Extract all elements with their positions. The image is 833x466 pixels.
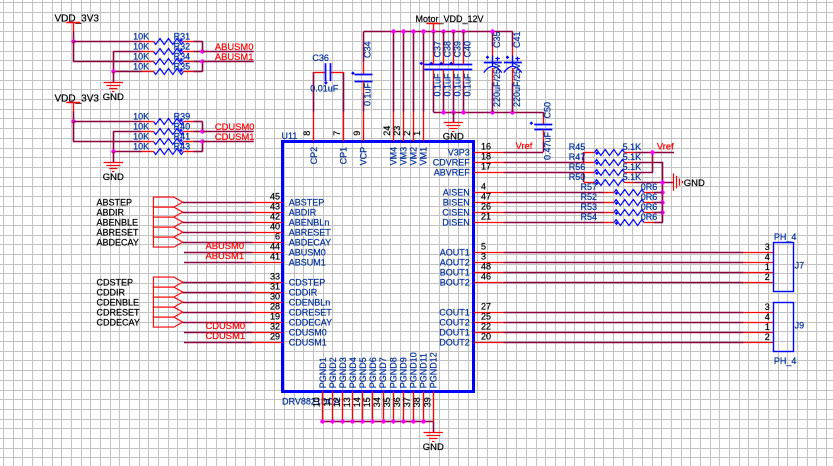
svg-text:COUT2: COUT2 [439,318,470,328]
svg-text:35: 35 [382,397,392,407]
svg-text:GND: GND [103,172,124,183]
svg-text:33: 33 [270,272,280,282]
svg-text:CDRESET: CDRESET [289,308,333,318]
svg-text:ABENBLn: ABENBLn [289,218,330,228]
svg-text:7: 7 [332,131,342,136]
svg-text:R40: R40 [174,121,191,131]
svg-text:CDVREF: CDVREF [433,158,471,168]
svg-text:3: 3 [765,302,770,312]
svg-text:CP1: CP1 [339,147,349,165]
svg-text:R47: R47 [569,152,586,162]
svg-text:CDSTEP: CDSTEP [289,278,326,288]
svg-text:1: 1 [765,262,770,272]
svg-text:R41: R41 [174,131,191,141]
svg-text:ABRESET: ABRESET [289,228,332,238]
svg-text:GND: GND [103,92,124,103]
svg-text:10K: 10K [133,51,149,61]
svg-text:ABUSM1: ABUSM1 [206,250,245,261]
svg-text:24: 24 [382,126,392,136]
svg-text:2: 2 [402,131,412,136]
svg-text:10K: 10K [133,111,149,121]
svg-text:PGND4: PGND4 [348,357,358,388]
svg-text:CDDECAY: CDDECAY [97,318,140,328]
svg-text:48: 48 [481,262,491,272]
svg-text:ABSTEP: ABSTEP [289,198,325,208]
svg-text:PGND2: PGND2 [328,357,338,388]
svg-text:CDUSM1: CDUSM1 [289,338,327,348]
svg-text:28: 28 [270,302,280,312]
svg-text:CDENBLE: CDENBLE [97,298,140,308]
svg-text:PGND12: PGND12 [428,352,438,388]
svg-text:CDENBLn: CDENBLn [289,298,331,308]
svg-text:0.1uF: 0.1uF [452,73,462,97]
svg-text:ABSUM1: ABSUM1 [289,258,326,268]
svg-text:29: 29 [270,332,280,342]
svg-text:1: 1 [765,322,770,332]
svg-text:GND: GND [443,132,464,143]
svg-text:Vref: Vref [516,140,533,151]
svg-text:C39: C39 [452,41,462,58]
svg-text:44: 44 [270,242,280,252]
svg-text:40: 40 [270,222,280,232]
svg-text:PGND7: PGND7 [378,357,388,388]
svg-text:0.1uF: 0.1uF [462,73,472,97]
svg-text:CISEN: CISEN [442,208,470,218]
svg-text:CDUSM0: CDUSM0 [289,328,327,338]
svg-text:C50: C50 [542,102,552,119]
svg-text:C37: C37 [432,41,442,58]
svg-text:0R6: 0R6 [641,192,658,202]
svg-text:22: 22 [481,322,491,332]
svg-text:19: 19 [270,312,280,322]
svg-text:16: 16 [481,142,491,152]
svg-text:R39: R39 [174,111,191,121]
svg-text:BISEN: BISEN [443,198,470,208]
svg-text:5.1K: 5.1K [623,142,642,152]
svg-text:CDDIR: CDDIR [97,288,126,298]
svg-text:25: 25 [481,312,491,322]
svg-text:14: 14 [352,397,362,407]
svg-text:220uF/25V: 220uF/25V [512,63,522,107]
svg-text:8: 8 [302,131,312,136]
svg-text:43: 43 [270,202,280,212]
svg-text:0R6: 0R6 [641,182,658,192]
svg-text:3: 3 [765,242,770,252]
svg-text:VM4: VM4 [389,147,399,166]
svg-text:J7: J7 [795,260,805,270]
svg-text:4: 4 [765,312,770,322]
svg-text:R56: R56 [569,162,586,172]
svg-text:PGND1: PGND1 [318,357,328,388]
svg-text:4: 4 [765,252,770,262]
svg-text:10K: 10K [133,41,149,51]
svg-text:C40: C40 [462,41,472,58]
svg-text:0.1uF: 0.1uF [363,82,373,106]
svg-text:BOUT1: BOUT1 [440,268,470,278]
svg-text:41: 41 [270,252,280,262]
svg-text:10K: 10K [133,31,149,41]
svg-text:CDUSM1: CDUSM1 [215,131,255,142]
svg-text:5: 5 [481,242,486,252]
svg-text:27: 27 [481,302,491,312]
svg-text:C38: C38 [442,41,452,58]
svg-text:PH_4: PH_4 [774,356,797,366]
svg-text:10K: 10K [133,141,149,151]
svg-text:PGND5: PGND5 [358,357,368,388]
svg-text:26: 26 [481,202,491,212]
svg-text:2: 2 [765,332,770,342]
svg-text:21: 21 [481,212,491,222]
svg-text:Motor_VDD_12V: Motor_VDD_12V [416,14,484,24]
svg-text:GND: GND [423,442,444,453]
svg-text:C36: C36 [312,53,329,63]
svg-text:CDDIR: CDDIR [289,288,318,298]
svg-text:PGND9: PGND9 [398,357,408,388]
svg-text:DOUT1: DOUT1 [439,328,470,338]
svg-text:C34: C34 [363,41,373,58]
svg-text:R45: R45 [569,142,586,152]
svg-text:R52: R52 [580,192,597,202]
svg-text:CDDECAY: CDDECAY [289,318,332,328]
svg-text:6: 6 [275,232,280,242]
svg-text:R57: R57 [580,182,597,192]
svg-text:CDSTEP: CDSTEP [97,278,134,288]
svg-text:5.1K: 5.1K [623,172,642,182]
svg-text:0.1uF: 0.1uF [432,73,442,97]
svg-text:AOUT1: AOUT1 [440,248,470,258]
svg-text:45: 45 [270,192,280,202]
svg-text:BOUT2: BOUT2 [440,278,470,288]
svg-text:10K: 10K [133,121,149,131]
svg-text:AISEN: AISEN [443,188,470,198]
svg-text:36: 36 [392,397,402,407]
svg-text:46: 46 [481,272,491,282]
svg-text:ABVREF: ABVREF [434,168,471,178]
svg-text:ABDIR: ABDIR [289,208,317,218]
svg-text:CP2: CP2 [309,147,319,165]
svg-text:AOUT2: AOUT2 [440,258,470,268]
svg-text:23: 23 [392,126,402,136]
svg-text:31: 31 [270,282,280,292]
svg-text:9: 9 [352,131,362,136]
svg-text:3: 3 [481,252,486,262]
svg-text:ABENBLE: ABENBLE [97,218,139,228]
svg-text:Vref: Vref [657,140,674,151]
svg-text:ABRESET: ABRESET [97,228,140,238]
svg-text:15: 15 [362,397,372,407]
svg-text:VM2: VM2 [409,147,419,166]
svg-text:4: 4 [481,182,486,192]
svg-text:GND: GND [684,178,705,189]
svg-text:ABUSM0: ABUSM0 [289,248,326,258]
svg-text:ABUSM1: ABUSM1 [215,51,254,62]
svg-text:0.1uF: 0.1uF [442,73,452,97]
svg-text:5.1K: 5.1K [623,162,642,172]
svg-text:47: 47 [481,192,491,202]
svg-text:R35: R35 [174,61,191,71]
svg-text:R43: R43 [174,141,191,151]
svg-text:0.47uF: 0.47uF [542,131,552,160]
svg-text:ABDECAY: ABDECAY [97,238,139,248]
svg-text:R53: R53 [580,202,597,212]
svg-text:R32: R32 [174,41,191,51]
svg-text:38: 38 [412,397,422,407]
svg-text:0R6: 0R6 [641,212,658,222]
svg-text:30: 30 [270,292,280,302]
svg-text:ABSTEP: ABSTEP [97,198,133,208]
svg-text:DOUT2: DOUT2 [439,338,470,348]
svg-text:R31: R31 [174,31,191,41]
svg-text:10: 10 [312,397,322,407]
svg-text:37: 37 [402,397,412,407]
svg-text:11: 11 [322,397,332,406]
svg-text:VM3: VM3 [399,147,409,166]
svg-text:R34: R34 [174,51,191,61]
svg-text:PGND6: PGND6 [368,357,378,388]
svg-text:42: 42 [270,212,280,222]
svg-text:DISEN: DISEN [442,218,470,228]
svg-text:10K: 10K [133,61,149,71]
svg-text:V3P3: V3P3 [448,148,470,158]
svg-text:VM1: VM1 [419,147,429,166]
svg-text:VCP: VCP [359,147,369,166]
svg-text:PGND3: PGND3 [338,357,348,388]
svg-text:2: 2 [765,272,770,282]
svg-text:CDRESET: CDRESET [97,308,141,318]
svg-text:PGND11: PGND11 [418,353,428,388]
svg-text:12: 12 [332,397,342,407]
svg-text:PH_4: PH_4 [774,232,797,242]
svg-text:R54: R54 [580,212,597,222]
svg-text:10K: 10K [133,131,149,141]
svg-text:PGND10: PGND10 [408,352,418,388]
svg-text:17: 17 [481,162,491,172]
svg-text:ABDIR: ABDIR [97,208,125,218]
svg-text:0.01uF: 0.01uF [310,84,339,94]
svg-text:220uF/25V: 220uF/25V [492,63,502,107]
svg-text:13: 13 [342,397,352,407]
svg-text:1: 1 [412,131,422,136]
svg-text:C35: C35 [492,31,502,48]
svg-text:ABDECAY: ABDECAY [289,238,331,248]
svg-text:18: 18 [481,152,491,162]
svg-text:20: 20 [481,332,491,342]
svg-text:32: 32 [270,322,280,332]
svg-text:34: 34 [372,397,382,407]
svg-text:COUT1: COUT1 [439,308,470,318]
svg-text:C41: C41 [512,31,522,48]
svg-text:PGND8: PGND8 [388,357,398,388]
svg-text:R50: R50 [569,172,586,182]
svg-text:0R6: 0R6 [641,202,658,212]
svg-text:39: 39 [422,397,432,407]
svg-text:U11: U11 [282,131,298,141]
svg-text:5.1K: 5.1K [623,152,642,162]
svg-text:CDUSM1: CDUSM1 [206,330,246,341]
svg-text:J9: J9 [795,320,805,330]
